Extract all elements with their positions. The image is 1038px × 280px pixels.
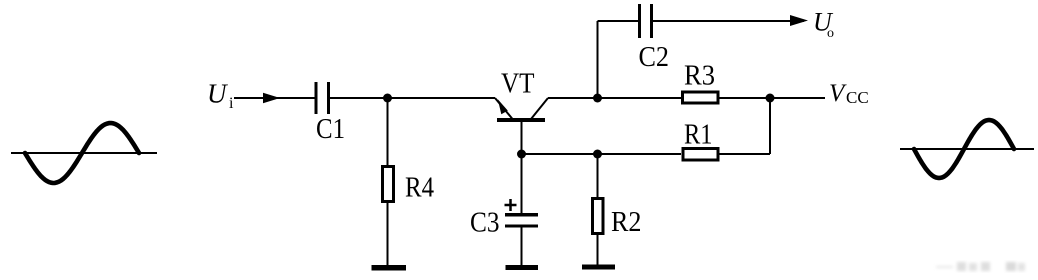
left sine axis	[11, 152, 157, 154]
svg-text:i: i	[229, 95, 234, 112]
output arrow	[790, 15, 808, 26]
wire R3 to Vcc	[720, 97, 826, 99]
input arrow	[263, 93, 280, 103]
svg-text:R1: R1	[684, 120, 713, 151]
resistor R4	[383, 167, 394, 202]
left sine wave	[25, 123, 139, 183]
svg-text:C2: C2	[639, 42, 670, 73]
svg-text:R2: R2	[611, 207, 642, 238]
svg-text:U: U	[207, 79, 228, 109]
ground R2	[582, 265, 615, 270]
transistor Q emitter diagonal	[495, 98, 513, 119]
resistor R3	[683, 92, 719, 103]
wire C1 to emitter corner	[329, 97, 495, 99]
ground C3	[506, 265, 539, 270]
wire C3 to ground	[521, 228, 523, 267]
capacitor C2 plates	[638, 4, 641, 38]
right sine axis	[900, 148, 1034, 150]
base lead down	[521, 122, 523, 154]
svg-text:CC: CC	[846, 88, 869, 107]
wire node down to R4	[387, 98, 389, 165]
node dot R2 top	[593, 150, 602, 159]
wire R4 to ground	[387, 203, 389, 266]
wire right corner up to Vcc node	[769, 98, 771, 154]
ground R4	[372, 265, 407, 271]
wire collector to R3	[548, 97, 681, 99]
top wire to C2	[598, 20, 639, 22]
transistor Q collector diagonal	[531, 98, 548, 119]
wire R1 to right corner	[720, 153, 771, 155]
transistor base bar	[497, 118, 545, 122]
svg-text:C1: C1	[316, 114, 345, 145]
resistor R2	[593, 199, 604, 234]
svg-text:C3: C3	[470, 208, 500, 239]
transistor emitter arrow	[498, 99, 508, 114]
resistor R1	[683, 149, 718, 161]
svg-text:o: o	[827, 26, 834, 41]
wire collector node up	[597, 21, 599, 98]
top wire C2 to output arrow	[653, 20, 804, 22]
svg-text:R4: R4	[405, 173, 434, 204]
right sine wave	[914, 120, 1014, 178]
node dot Vcc	[766, 94, 775, 103]
svg-text:VT: VT	[501, 69, 535, 100]
svg-text:R3: R3	[684, 61, 715, 92]
wire input Ui to C1	[234, 97, 316, 99]
faint watermark	[936, 262, 1025, 271]
capacitor C3 plates	[505, 213, 538, 217]
capacitor C1 plates	[315, 82, 318, 114]
row2 wire base to R1	[522, 153, 682, 155]
node dot collector	[593, 94, 602, 103]
wire base node down to C3	[521, 154, 523, 213]
C3 plus sign	[505, 199, 517, 211]
wire R2 to ground	[597, 235, 599, 265]
wire node down to R2	[597, 154, 599, 197]
node dot A	[383, 94, 392, 103]
node dot base	[517, 150, 526, 159]
